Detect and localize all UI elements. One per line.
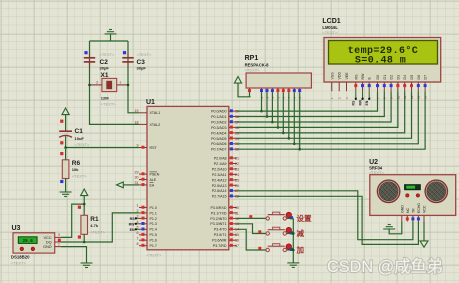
svg-text:10uF: 10uF: [75, 136, 85, 141]
wire RP1 pin8 to P0.6: [293, 93, 295, 144]
pin XTAL1 U1: [135, 109, 161, 115]
svg-text:P0.5/AD5: P0.5/AD5: [211, 137, 226, 141]
pin LCD D0: [376, 75, 380, 99]
wire R6 to ground: [65, 179, 67, 193]
ground (below R6): [60, 192, 72, 197]
svg-text:<TEXT>: <TEXT>: [100, 52, 116, 57]
capacitor C2: [84, 51, 115, 71]
pin P2.5 U1: [212, 184, 239, 188]
pin RP1-5: [276, 88, 280, 99]
LCD1 LM016L: [322, 18, 440, 82]
svg-text:P3.2/INT0: P3.2/INT0: [210, 217, 226, 221]
svg-text:VCC: VCC: [423, 205, 427, 213]
pin EA U1: [135, 181, 155, 187]
svg-text:P3.7/RD: P3.7/RD: [213, 244, 227, 248]
svg-text:P0.3/AD3: P0.3/AD3: [211, 126, 226, 130]
svg-text:P2.4/A12: P2.4/A12: [212, 178, 227, 182]
node net label EN (U1 side): [130, 228, 139, 232]
pin U2 VCC: [423, 205, 427, 221]
svg-text:P0.2/AD2: P0.2/AD2: [211, 120, 226, 124]
svg-text:<TEXT>: <TEXT>: [147, 253, 163, 258]
pin U2 TR: [411, 208, 415, 222]
wire button ground rail: [292, 218, 294, 263]
pin RP1-4: [271, 88, 275, 99]
wire RP1 pin5 to P0.3: [277, 93, 279, 127]
svg-text:11: 11: [403, 96, 407, 99]
svg-text:21: 21: [235, 157, 239, 161]
svg-text:16: 16: [235, 239, 239, 243]
svg-text:C1: C1: [75, 128, 84, 135]
pin P3.1 U1: [211, 211, 239, 215]
wire U2 GND to ground: [389, 222, 402, 234]
svg-text:R6: R6: [72, 160, 81, 167]
svg-text:31: 31: [135, 181, 139, 185]
svg-text:XTAL2: XTAL2: [150, 123, 161, 127]
svg-text:ECHO: ECHO: [417, 203, 421, 213]
wire XTAL2 net (C2 branch): [90, 41, 140, 124]
node X1-C2: [88, 84, 91, 87]
svg-text:<TEXT>: <TEXT>: [90, 230, 106, 235]
svg-text:RST: RST: [150, 146, 158, 150]
pin U2 GND: [400, 205, 404, 222]
node VCC-R1 junction: [83, 203, 86, 206]
svg-text:D1: D1: [383, 75, 387, 80]
pin P3.5 U1: [214, 233, 239, 237]
svg-text:P2.2/A10: P2.2/A10: [212, 167, 227, 171]
pin RP1 common: [248, 88, 252, 98]
pin XTAL2 U1: [135, 121, 161, 127]
svg-text:29: 29: [135, 170, 139, 174]
pin LCD RS: [354, 74, 358, 99]
wire C1 to R6: [65, 148, 67, 160]
wire TR to P2.6: [237, 191, 413, 240]
pin LCD E: [368, 77, 372, 100]
svg-text:22: 22: [235, 162, 239, 166]
svg-text:EN: EN: [130, 228, 135, 232]
pin P3.7 U1: [213, 244, 239, 248]
wire RP1 pin2 to P0.0: [261, 93, 263, 111]
svg-text:ALE: ALE: [150, 178, 157, 182]
power terminal (EA, pointing left): [117, 182, 124, 188]
svg-text:P3.1/TXD: P3.1/TXD: [211, 211, 227, 215]
pin P1.2 U1: [137, 215, 157, 221]
node junction RP1-P0.0: [260, 110, 263, 113]
pin P2.0 U1: [214, 156, 239, 160]
svg-text:P3.0/RXD: P3.0/RXD: [211, 206, 227, 210]
node junction RP1-P0.2: [271, 121, 274, 124]
svg-text:P2.1/A9: P2.1/A9: [214, 162, 227, 166]
svg-text:D3: D3: [396, 75, 400, 80]
pin P2.3 U1: [212, 173, 239, 177]
pin LCD D1: [383, 75, 387, 99]
svg-text:RW: RW: [129, 222, 136, 226]
pin RP1-9: [298, 88, 302, 99]
svg-text:6: 6: [137, 231, 139, 235]
svg-text:LM016L: LM016L: [322, 25, 338, 30]
svg-text:<TEXT>: <TEXT>: [11, 260, 27, 265]
svg-text:GND: GND: [43, 245, 52, 249]
pin P1.1 U1: [137, 209, 157, 215]
svg-text:P0.1/AD1: P0.1/AD1: [211, 115, 226, 119]
pin P2.7 U1: [212, 194, 239, 198]
svg-text:PSEN: PSEN: [150, 173, 160, 177]
pin RST U1: [137, 144, 158, 150]
svg-text:9: 9: [137, 144, 139, 148]
svg-text:D7: D7: [424, 75, 428, 80]
pin P0.6 U1: [211, 142, 239, 146]
wire P0.3 to LCD D3: [237, 91, 398, 127]
pin P2.2 U1: [212, 167, 239, 171]
button SW2 减: [258, 227, 304, 238]
pin LCD VEE: [345, 72, 349, 99]
svg-text:<TEXT>: <TEXT>: [322, 30, 338, 35]
ground (U3): [81, 263, 93, 268]
wire P0.7 to LCD D7: [237, 91, 425, 149]
crystal X1: [90, 72, 129, 107]
pin P1.0 U1: [137, 204, 157, 210]
node junction RP1-P0.7: [298, 148, 301, 151]
wire U3 GND to ground: [61, 247, 87, 263]
wire R1 to DQ net: [83, 234, 85, 242]
svg-text:18: 18: [135, 121, 139, 125]
svg-text:RW: RW: [361, 73, 365, 80]
pin P2.1 U1: [214, 162, 239, 166]
wire P3.4 to button PLUS: [237, 229, 266, 250]
svg-text:RP1: RP1: [245, 55, 259, 62]
ground (buttons): [287, 263, 299, 268]
wire EA to power: [123, 184, 139, 186]
svg-text:24: 24: [235, 173, 239, 177]
svg-text:P0.6/AD6: P0.6/AD6: [211, 142, 226, 146]
pin P0.1 U1: [211, 115, 239, 119]
svg-text:<TEXT>: <TEXT>: [72, 173, 88, 178]
svg-text:1: 1: [137, 204, 139, 208]
svg-text:X1: X1: [101, 72, 109, 79]
pin LCD D3: [396, 75, 400, 99]
svg-text:1: 1: [58, 242, 60, 246]
svg-text:P1.4: P1.4: [150, 228, 157, 232]
svg-text:TR: TR: [412, 208, 416, 213]
wire osc top rail: [90, 40, 129, 42]
node net label RS (LCD side): [352, 91, 357, 105]
svg-text:P2.0/A8: P2.0/A8: [214, 157, 227, 161]
pin RP1-8: [293, 88, 297, 99]
svg-text:2: 2: [96, 80, 98, 84]
svg-text:EA: EA: [150, 183, 155, 187]
node junction RP1-P0.4: [282, 132, 285, 135]
svg-text:P0.0/AD0: P0.0/AD0: [211, 110, 226, 114]
wire P0.5 to LCD D5: [237, 91, 412, 138]
svg-text:13: 13: [417, 95, 421, 99]
node net label RW (U1 side): [129, 222, 139, 226]
node X1-C3: [127, 84, 130, 87]
svg-text:P1.7: P1.7: [150, 244, 157, 248]
wire RP1 pin9 to P0.7: [299, 93, 301, 149]
svg-text:D4: D4: [403, 75, 407, 80]
svg-text:VCC: VCC: [44, 236, 52, 240]
svg-text:<TEXT>: <TEXT>: [245, 68, 261, 73]
node junction RP1-P0.5: [288, 137, 291, 140]
ground (U2, inverted): [383, 225, 395, 230]
svg-text:P2.5/A13: P2.5/A13: [212, 184, 227, 188]
svg-text:30pF: 30pF: [137, 66, 147, 71]
pin P1.7 U1: [137, 242, 157, 248]
pin LCD D5: [410, 75, 414, 99]
svg-text:2: 2: [137, 209, 139, 213]
wire P0.2 to LCD D2: [237, 91, 391, 122]
pin P1.6 U1: [137, 236, 157, 242]
power terminal (U2 VCC, pointing down): [420, 241, 428, 247]
svg-text:DS18B20: DS18B20: [11, 254, 30, 259]
pin U2 NC: [406, 207, 410, 221]
wire RP1 pin7 to P0.5: [288, 93, 290, 138]
svg-text:29.6: 29.6: [23, 240, 34, 244]
pin P1.4 U1: [137, 226, 157, 232]
svg-text:VDD: VDD: [338, 72, 342, 80]
svg-text:26: 26: [235, 184, 239, 188]
svg-text:P3.4/T0: P3.4/T0: [214, 228, 227, 232]
pin LCD VSS: [330, 72, 334, 99]
svg-text:P2.3/A11: P2.3/A11: [212, 173, 227, 177]
svg-text:U3: U3: [12, 225, 21, 232]
resistor R6: [60, 152, 87, 183]
pin P2.4 U1: [212, 178, 239, 182]
svg-text:25: 25: [235, 178, 239, 182]
svg-text:23: 23: [235, 167, 239, 171]
pin P3.4 U1: [214, 228, 239, 232]
wire P0.0 to LCD D0: [237, 91, 378, 111]
ground (top, oscillator): [110, 34, 112, 41]
sensor U3 DS18B20: [11, 225, 61, 265]
svg-text:P3.6/WR: P3.6/WR: [212, 239, 227, 243]
pin RP1-3: [265, 88, 269, 99]
node junction RP1-P0.1: [266, 115, 269, 118]
svg-text:VSS: VSS: [330, 72, 334, 80]
wire U3 VCC to rail: [61, 204, 84, 237]
svg-text:P2.6/A14: P2.6/A14: [212, 189, 227, 193]
button SW3 加: [258, 244, 304, 255]
svg-text:11: 11: [235, 211, 239, 215]
power terminal (RST chain): [62, 108, 69, 115]
pin PSEN U1: [135, 170, 160, 176]
pin RP1-7: [287, 88, 291, 99]
svg-text:RS: RS: [352, 100, 356, 105]
node net label EN (LCD side): [365, 91, 370, 105]
svg-text:12M: 12M: [101, 96, 109, 101]
pin P3.2 U1: [210, 217, 239, 221]
pin LCD D2: [390, 75, 394, 99]
svg-text:RS: RS: [354, 74, 358, 80]
wire RP1 pin4 to P0.2: [271, 93, 273, 122]
pin RP1-6: [282, 88, 286, 99]
pin LCD D7: [424, 75, 428, 99]
svg-text:RESPACK-8: RESPACK-8: [245, 62, 270, 67]
svg-text:CSDN @咸鱼弟: CSDN @咸鱼弟: [327, 258, 443, 276]
node junction RP1-P0.6: [293, 143, 296, 146]
svg-text:P0.7/AD7: P0.7/AD7: [211, 148, 226, 152]
svg-text:7: 7: [137, 236, 139, 240]
svg-text:R1: R1: [90, 216, 99, 223]
svg-text:P1.3: P1.3: [150, 222, 157, 226]
svg-text:P2.7/A15: P2.7/A15: [212, 195, 227, 199]
pin P3.0 U1: [211, 206, 239, 210]
svg-text:8: 8: [137, 242, 139, 246]
svg-text:15: 15: [235, 233, 239, 237]
pin P3.3 U1: [210, 222, 239, 226]
svg-text:D6: D6: [417, 75, 421, 80]
svg-text:GND: GND: [400, 205, 404, 213]
svg-text:P1.6: P1.6: [150, 239, 157, 243]
node net label RW (LCD side): [358, 91, 363, 105]
node junction RP1-P0.3: [277, 126, 280, 129]
svg-text:P0.4/AD4: P0.4/AD4: [211, 131, 226, 135]
svg-text:P1.2: P1.2: [150, 217, 157, 221]
wire P0.6 to LCD D6: [237, 91, 418, 144]
power terminal (R1 pull-up): [81, 189, 88, 196]
svg-text:D2: D2: [390, 75, 394, 80]
pin LCD D4: [403, 75, 407, 99]
resistor R1: [78, 206, 106, 239]
svg-text:DQ: DQ: [46, 241, 52, 245]
svg-text:EN: EN: [365, 100, 369, 105]
svg-text:<TEXT>: <TEXT>: [101, 102, 117, 107]
svg-text:XTAL1: XTAL1: [150, 111, 161, 115]
pin P0.0 U1: [211, 109, 239, 113]
svg-text:P3.3/INT1: P3.3/INT1: [210, 222, 226, 226]
pin P1.5 U1: [137, 231, 157, 237]
node rail-SW3: [292, 249, 295, 252]
pin RP1-2: [260, 88, 264, 99]
resistor pack RP1: [245, 55, 312, 88]
svg-text:减: 减: [297, 228, 305, 238]
pin P0.4 U1: [211, 131, 239, 135]
svg-text:14: 14: [424, 95, 428, 99]
wire RP1 common to power: [238, 83, 250, 97]
svg-text:10: 10: [396, 95, 400, 99]
svg-text:S=0.48 m: S=0.48 m: [355, 56, 406, 67]
pin P0.3 U1: [211, 126, 239, 130]
svg-text:4.7k: 4.7k: [90, 223, 99, 228]
svg-text:D0: D0: [376, 75, 380, 80]
svg-text:10k: 10k: [72, 167, 79, 172]
svg-text:U1: U1: [146, 99, 155, 106]
svg-text:12: 12: [410, 95, 414, 99]
wire P3.2 to button SET: [237, 217, 266, 219]
svg-text:30pF: 30pF: [100, 66, 110, 71]
pin P2.6 U1: [212, 189, 239, 193]
wire U2 VCC to power: [423, 222, 425, 241]
node RST junction: [64, 146, 67, 149]
node net label RS (U1 side): [130, 217, 139, 221]
svg-text:<TEXT>: <TEXT>: [75, 142, 91, 147]
wire RST to U1: [66, 147, 139, 149]
svg-text:D5: D5: [410, 75, 414, 80]
svg-text:P3.5/T1: P3.5/T1: [214, 233, 227, 237]
wire RP1 pin6 to P0.4: [282, 93, 284, 133]
wire P0.4 to LCD D4: [237, 91, 405, 133]
wire DQ net (U3 to U1 P1.1): [61, 213, 139, 242]
wire XTAL1 net (C3 branch): [128, 41, 139, 113]
wire P0.1 to LCD D1: [237, 91, 384, 116]
pin ALE U1: [135, 176, 157, 182]
svg-text:NC: NC: [406, 207, 410, 213]
node R1-DQ junction: [83, 241, 86, 244]
svg-text:19: 19: [135, 109, 139, 113]
pin P0.2 U1: [211, 120, 239, 124]
wire RP1 pin3 to P0.1: [266, 93, 268, 117]
pin P3.6 U1: [212, 238, 239, 242]
svg-text:RW: RW: [358, 99, 362, 105]
pin LCD RW: [361, 73, 365, 99]
wire ECHO to P2.7: [237, 196, 419, 244]
svg-text:P1.1: P1.1: [150, 211, 157, 215]
svg-text:1: 1: [119, 80, 121, 84]
pin P0.5 U1: [211, 137, 239, 141]
svg-text:17: 17: [235, 244, 239, 248]
svg-text:30: 30: [135, 176, 139, 180]
svg-text:3: 3: [58, 233, 60, 237]
svg-text:RS: RS: [130, 217, 136, 221]
svg-text:P1.0: P1.0: [150, 206, 157, 210]
pin P0.7 U1: [211, 147, 239, 151]
svg-text:加: 加: [296, 245, 305, 255]
capacitor C1: [59, 120, 90, 148]
pin LCD D6: [417, 75, 421, 99]
node rail-SW2: [292, 232, 295, 235]
svg-text:P1.5: P1.5: [150, 233, 157, 237]
pin U2 ECHO: [417, 203, 421, 222]
wire power to R1: [83, 196, 85, 216]
wire power to C1: [65, 115, 67, 131]
wire P3.3 to button MINUS: [237, 224, 266, 234]
svg-text:VEE: VEE: [345, 72, 349, 80]
pin LCD VDD: [338, 72, 342, 99]
button SW1 设置: [249, 212, 312, 223]
svg-text:设置: 设置: [297, 213, 312, 223]
power terminal (RP1): [234, 77, 241, 84]
capacitor C3: [122, 51, 152, 71]
module U2 SRF04 ultrasonic sensor: [369, 159, 456, 216]
svg-text:<TEXT>: <TEXT>: [137, 52, 153, 57]
pin P1.3 U1: [137, 220, 157, 226]
svg-text:10: 10: [235, 206, 239, 210]
